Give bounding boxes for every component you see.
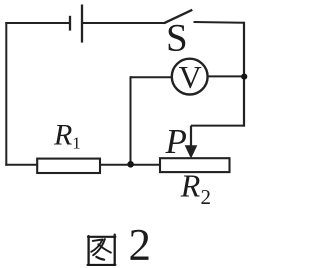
rheostat wiper arrowhead — [185, 145, 198, 158]
wire wiper horizontal — [191, 125, 245, 127]
svg-text:2: 2 — [201, 185, 212, 209]
wire battery to switch — [82, 22, 166, 24]
voltmeter V (circle) — [172, 59, 208, 95]
svg-text:S: S — [166, 17, 188, 60]
resistor R1 (box) — [37, 159, 100, 173]
svg-text:V: V — [179, 59, 202, 95]
resistor R2 (box) — [160, 158, 230, 172]
battery — [70, 5, 82, 43]
wire voltmeter left lead — [131, 76, 173, 78]
svg-text:R: R — [180, 167, 201, 203]
wire mid vertical — [130, 76, 132, 164]
wire left vertical — [5, 22, 7, 166]
svg-text:1: 1 — [72, 133, 81, 152]
svg-text:R: R — [53, 118, 72, 151]
junction dot (mid wire to bottom wire) — [127, 161, 134, 168]
wire voltmeter right lead — [208, 75, 243, 77]
switch S — [164, 10, 192, 23]
svg-text:P: P — [165, 122, 187, 161]
svg-text:2: 2 — [129, 220, 152, 268]
caption glyph TU (figure) — [88, 235, 116, 265]
wire bottom — [5, 164, 161, 166]
wire switch to top-right corner — [194, 21, 245, 24]
junction dot (voltmeter to right wire) — [241, 74, 247, 80]
wire top left (to battery) — [5, 22, 70, 24]
rheostat wiper P (shaft) — [190, 126, 192, 147]
wire right vertical — [243, 22, 245, 127]
